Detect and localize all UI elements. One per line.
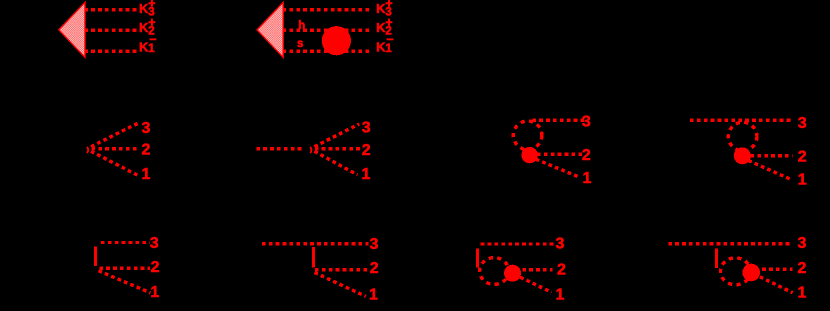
- svg-text:3: 3: [141, 120, 150, 137]
- label K2+ (diagram A): [139, 16, 156, 38]
- wire: pion line 2 (dashed horizontal, diagram J): [762, 268, 792, 271]
- loop L3 (dashed ellipse, diagram I): [480, 258, 509, 285]
- svg-text:+: +: [148, 0, 155, 10]
- blob B1: strong rescattering bubble (diagram B): [322, 26, 351, 55]
- diagram A: weak-vertex triangle T1 (crosshatched): [59, 2, 85, 57]
- svg-text:1: 1: [798, 171, 807, 188]
- wire: incoming kaon + pion line 3 (dashed horizontal, diagram F): [690, 119, 793, 122]
- svg-text:2: 2: [798, 260, 807, 277]
- wire: pion line 1 (dashed diagonal, diagram I): [520, 277, 551, 292]
- svg-text:−: −: [149, 33, 156, 47]
- svg-text:1: 1: [797, 285, 806, 302]
- node: contact vertex V2 (small arc, diagram D): [310, 147, 311, 153]
- svg-text:1: 1: [582, 170, 591, 187]
- svg-text:2: 2: [141, 141, 150, 158]
- wire: kaon line K3 (dashed, diagram B): [283, 8, 369, 11]
- wire: kaon line K2 (dashed, diagram B): [283, 29, 369, 32]
- label K3+ (diagram A): [139, 0, 156, 18]
- wire: pion line 1 (dashed diagonal, diagram G): [99, 271, 151, 293]
- loop L2: tadpole loop (dashed, diagram F): [728, 122, 757, 151]
- wire: incoming kaon line (dashed, diagram D): [256, 147, 304, 150]
- blob B5: vertex blob (diagram J): [742, 264, 760, 282]
- svg-text:1: 1: [141, 166, 150, 183]
- svg-text:3: 3: [798, 235, 807, 252]
- wire: pion line 3 (dashed diagonal, diagram D): [314, 124, 359, 147]
- wire: pion line 2 (dashed horizontal, diagram H): [315, 268, 369, 271]
- wire: pion line 3 (dashed horizontal, diagram G): [101, 241, 150, 244]
- wire: kaon line K3 (dashed, diagram A): [84, 8, 136, 11]
- wire: pion line 2 (dashed horizontal, diagram G): [99, 266, 150, 269]
- diagram E: tadpole loop L1 (dashed): [513, 121, 542, 150]
- label K2+ (diagram B): [376, 16, 393, 38]
- svg-text:2: 2: [370, 260, 379, 277]
- blob B3: vertex blob (diagram F): [734, 147, 751, 164]
- svg-text:3: 3: [150, 235, 159, 252]
- svg-text:1: 1: [362, 166, 371, 183]
- svg-text:−: −: [386, 33, 393, 47]
- svg-text:2: 2: [362, 142, 371, 159]
- wire: pion line 3 (dashed diagonal, diagram C): [91, 123, 139, 147]
- wire: pion line 2 (dashed horizontal, diagram C): [91, 147, 138, 150]
- wire: incoming kaon + pion line 3 (dashed horizontal, diagram J): [668, 242, 792, 245]
- svg-text:2: 2: [798, 148, 807, 165]
- svg-text:2: 2: [557, 261, 566, 278]
- svg-text:3: 3: [798, 115, 807, 132]
- diagram G: hard propagator P1 (solid vertical): [94, 246, 97, 266]
- label K1- (diagram B): [376, 33, 394, 56]
- svg-text:1: 1: [369, 286, 378, 303]
- wire: pion line 3 (dashed horizontal, diagram I): [481, 242, 554, 245]
- wire: pion line 2 (dashed horizontal, diagram I): [522, 268, 552, 271]
- svg-text:3: 3: [370, 236, 379, 253]
- diagram B: weak-vertex triangle T2 (crosshatched): [257, 2, 283, 57]
- propagator P2 (solid vertical, diagram H): [312, 247, 315, 268]
- svg-text:+: +: [385, 0, 392, 10]
- svg-text:1: 1: [150, 284, 159, 301]
- svg-text:3: 3: [582, 114, 591, 131]
- wire: pion line 2 (dashed horizontal, diagram D): [315, 147, 361, 150]
- blob B2: vertex blob (diagram E): [521, 147, 537, 163]
- diagram C: contact vertex node V1 (small arc): [87, 147, 88, 153]
- label K3+ (diagram B): [376, 0, 393, 18]
- wire: pion line 1 (dashed diagonal, diagram C): [91, 151, 138, 175]
- svg-text:3: 3: [362, 120, 371, 137]
- propagator P3 (solid vertical, diagram I): [476, 249, 479, 268]
- wire: pion line 1 (dashed diagonal, diagram H): [315, 273, 366, 297]
- svg-text:1: 1: [556, 287, 565, 304]
- svg-text:2: 2: [151, 259, 160, 276]
- wire: pion line 2 (dashed horizontal, diagram F): [751, 154, 793, 157]
- svg-text:h: h: [298, 20, 305, 32]
- propagator P4 (solid vertical, diagram J): [715, 249, 718, 268]
- loop L4 (dashed ellipse, diagram J): [721, 258, 751, 285]
- blob B4: vertex blob (diagram I): [504, 265, 521, 282]
- wire: kaon line K1 (dashed, diagram B): [283, 50, 369, 53]
- svg-text:+: +: [148, 16, 155, 30]
- wire: pion line 1 (dashed diagonal, diagram F): [748, 161, 791, 180]
- wire: pion line 3 from loop top (dashed, diagram E): [532, 119, 584, 122]
- wire: pion line 1 (dashed diagonal, diagram E): [536, 159, 579, 177]
- wire: incoming kaon + pion line 3 (dashed horizontal, diagram H): [262, 242, 369, 245]
- svg-text:+: +: [385, 16, 392, 30]
- label K1- (diagram A): [139, 33, 157, 56]
- wire: pion line 1 (dashed diagonal, diagram D): [314, 151, 357, 175]
- wire: kaon line K1 (dashed, diagram A): [84, 50, 136, 53]
- wire: kaon line K2 (dashed, diagram A): [84, 29, 136, 32]
- svg-text:2: 2: [582, 147, 591, 164]
- wire: pion line 1 (dashed diagonal, diagram J): [760, 277, 793, 293]
- wire: pion line 2 (dashed horizontal, diagram E): [537, 153, 583, 156]
- svg-text:3: 3: [556, 236, 565, 253]
- svg-text:s: s: [297, 38, 303, 50]
